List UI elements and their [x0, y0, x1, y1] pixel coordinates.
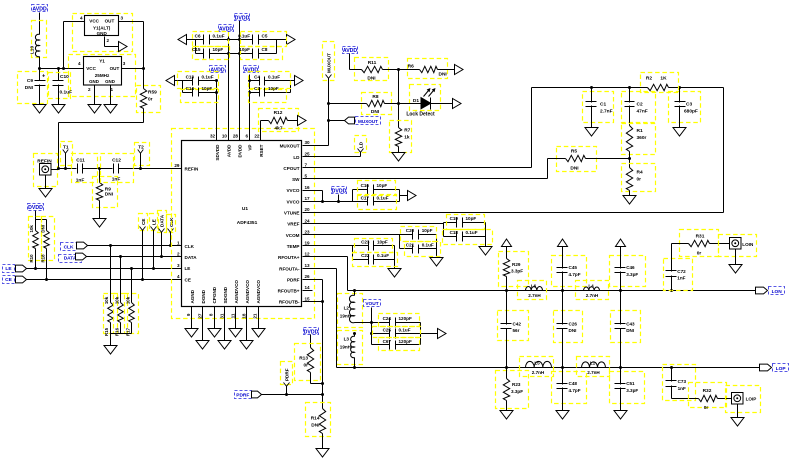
wire decap joint CD right	[290, 81, 292, 93]
ground Y1 pin1	[104, 105, 117, 114]
output flag LOP	[760, 364, 789, 372]
svg-text:3.3pF: 3.3pF	[511, 269, 523, 274]
svg-text:10pF: 10pF	[377, 239, 388, 244]
resistor R4 0r	[622, 164, 656, 196]
svg-text:4.7pF: 4.7pF	[569, 388, 581, 393]
resistor R11 DNI	[350, 58, 399, 82]
svg-text:23: 23	[305, 229, 311, 234]
svg-text:26: 26	[305, 274, 311, 279]
svg-text:DNI: DNI	[570, 166, 579, 172]
inductor L10	[30, 21, 47, 58]
wire MUXOUT pin30	[303, 145, 329, 147]
svg-text:L10: L10	[30, 46, 36, 55]
svg-text:L1: L1	[590, 360, 596, 365]
svg-text:AGNDVCO: AGNDVCO	[256, 280, 261, 304]
capacitor C3 680pF	[669, 88, 701, 128]
svg-text:3.3pF: 3.3pF	[626, 388, 638, 393]
svg-text:VREF: VREF	[287, 222, 299, 227]
svg-text:4: 4	[177, 274, 180, 279]
wire Y1ALT VCC drop	[64, 22, 85, 69]
wire DVDD pin28	[239, 21, 241, 141]
resistor R8 DNI	[329, 93, 399, 115]
svg-text:6: 6	[245, 134, 248, 139]
svg-text:C25: C25	[383, 328, 392, 333]
ground C1	[585, 128, 598, 137]
wire U1 ground pin AGNDVCO	[246, 307, 248, 341]
svg-text:10pF: 10pF	[268, 86, 279, 91]
svg-text:SDGND: SDGND	[223, 286, 228, 303]
svg-text:D1: D1	[413, 98, 419, 104]
wire C22 row	[353, 259, 395, 261]
svg-text:C18: C18	[450, 230, 459, 235]
wire C18 row	[444, 236, 486, 238]
wire U1 ground pin SDGND	[224, 307, 226, 341]
ground branch2	[556, 411, 569, 420]
arrow R6 out	[455, 65, 464, 75]
wire C24/C67 joint right	[421, 323, 438, 345]
wire CPOUT pin7	[303, 88, 532, 168]
svg-text:RFOUTB-: RFOUTB-	[279, 300, 300, 305]
ground U1 pin SDGND	[218, 341, 231, 350]
ground LOIN	[729, 249, 742, 274]
wire VP pin6	[249, 75, 251, 141]
wire L2 to C24	[355, 322, 372, 324]
wire C19/C18 joints	[444, 223, 486, 247]
svg-text:R32: R32	[703, 388, 712, 394]
svg-text:AGNDVCO: AGNDVCO	[234, 280, 239, 304]
svg-text:0.1uF: 0.1uF	[213, 33, 225, 38]
svg-text:C10: C10	[60, 74, 69, 80]
input flag DATA	[59, 253, 183, 262]
svg-text:2: 2	[88, 87, 91, 92]
svg-text:C72: C72	[677, 269, 686, 274]
capacitor C1 2.7nF	[583, 88, 614, 128]
net label LD vertical	[355, 136, 367, 157]
input flag LE	[3, 265, 183, 273]
node junction C2	[628, 86, 631, 89]
net label PDRF vertical	[281, 362, 293, 397]
svg-text:AVDD: AVDD	[343, 48, 358, 54]
node junction D1	[397, 102, 400, 105]
diode D1 LED Lock Detect	[399, 85, 453, 118]
svg-text:Y1: Y1	[99, 58, 105, 63]
capacitor C73 1nF	[663, 365, 699, 401]
output flag MUXOUT	[329, 117, 381, 125]
svg-text:R1: R1	[637, 128, 643, 134]
svg-text:R29: R29	[512, 262, 521, 267]
svg-text:C15: C15	[192, 47, 201, 52]
svg-text:C45: C45	[569, 265, 578, 270]
capacitor C22 0.1uF	[353, 253, 398, 267]
inductor L2 19nH	[338, 291, 363, 328]
resistor R5 DNI	[548, 147, 630, 172]
capacitor C13 0.1uF	[178, 72, 219, 89]
resistor R9 DNI	[93, 169, 118, 219]
node junction R9	[98, 167, 101, 170]
svg-text:0r: 0r	[697, 250, 702, 256]
wire SW pin5	[303, 159, 548, 179]
svg-text:C5: C5	[262, 33, 268, 38]
output flag LON	[756, 287, 785, 295]
svg-text:0.1uF: 0.1uF	[268, 75, 280, 80]
svg-text:20: 20	[305, 207, 311, 212]
svg-text:1K: 1K	[660, 76, 667, 82]
capacitor C15 10pF	[192, 47, 229, 60]
node junction branch2 rail1	[561, 289, 564, 292]
svg-text:L4: L4	[588, 283, 594, 288]
power label DVDD top	[235, 14, 250, 22]
ground U1 pin AGNDVCO	[240, 341, 253, 350]
testpoint T2	[135, 143, 150, 171]
ground C3	[673, 128, 686, 137]
svg-text:R4: R4	[637, 170, 643, 176]
svg-text:RSET: RSET	[259, 144, 264, 156]
node junction R59 return	[57, 167, 60, 170]
svg-text:DATA: DATA	[64, 256, 77, 262]
node junction L3 rail2	[353, 366, 356, 369]
svg-text:C13: C13	[186, 75, 195, 80]
node junction R10 LE	[34, 267, 37, 270]
capacitor C17 0.1uF	[358, 195, 397, 210]
wire C23/C22 joints	[353, 246, 395, 269]
svg-text:R14: R14	[311, 416, 320, 422]
svg-text:25: 25	[305, 151, 311, 156]
capacitor C12 1nF	[101, 154, 134, 183]
svg-text:C51: C51	[626, 381, 635, 386]
wire U1 ground pin DGND	[202, 307, 204, 341]
svg-text:L5: L5	[534, 360, 540, 365]
resistor R23 3.3pF	[496, 368, 529, 411]
svg-text:27: 27	[197, 313, 202, 319]
svg-text:C7: C7	[254, 86, 260, 91]
svg-text:0.1uF: 0.1uF	[238, 33, 250, 38]
svg-text:R10: R10	[29, 254, 34, 263]
wire C25 row	[372, 333, 421, 335]
svg-text:DNI: DNI	[105, 191, 114, 197]
wire C67 row	[372, 344, 421, 346]
inductor L4 2.7nH	[576, 281, 609, 300]
ground branch1	[500, 411, 513, 420]
svg-text:0.1uF: 0.1uF	[377, 253, 389, 258]
wire Y1 pin3 out	[122, 67, 146, 70]
node junction branch1 rail2	[505, 366, 508, 369]
ground R14	[316, 449, 329, 458]
svg-text:10: 10	[222, 134, 228, 139]
wire REFIN row	[59, 168, 183, 170]
svg-text:C17: C17	[361, 196, 370, 201]
svg-text:R23: R23	[512, 382, 521, 387]
wire VCOM pin23	[303, 234, 400, 236]
svg-text:DVDD: DVDD	[28, 205, 43, 211]
svg-text:14: 14	[305, 285, 311, 290]
wire U1 ground pin AGNDVCO	[258, 307, 260, 329]
node junction Y1ALT drop	[62, 67, 65, 70]
svg-text:DATA: DATA	[185, 255, 198, 260]
svg-text:R6: R6	[408, 64, 414, 70]
svg-text:C4: C4	[254, 75, 260, 80]
wire RFOUTB- pin15	[303, 300, 325, 303]
wire R59 return to REFIN node	[59, 109, 144, 169]
svg-text:4: 4	[80, 16, 83, 21]
svg-text:GND: GND	[105, 79, 115, 84]
arrow up branch3	[616, 239, 626, 247]
svg-text:SDVDD: SDVDD	[215, 144, 220, 161]
wire RFOUTA+ pin12	[303, 257, 348, 291]
svg-text:2: 2	[177, 252, 180, 257]
svg-text:0.1uF: 0.1uF	[466, 230, 478, 235]
svg-text:47nF: 47nF	[637, 108, 648, 114]
wire decap row C left	[175, 79, 219, 82]
svg-text:R8: R8	[372, 94, 378, 100]
svg-text:13: 13	[305, 263, 311, 268]
wire decap row B	[196, 52, 277, 55]
svg-text:8: 8	[209, 313, 214, 316]
node junction R1/R4/R5	[628, 157, 631, 160]
wire C23 row	[353, 245, 395, 247]
svg-text:DNI: DNI	[367, 76, 376, 82]
capacitor C8 10pF	[239, 47, 282, 60]
svg-text:10k: 10k	[114, 296, 119, 304]
capacitor C10 0.1uF	[49, 73, 73, 105]
inductor L6 2.7nH	[518, 281, 547, 300]
resistor R7 1k	[390, 121, 412, 153]
svg-text:LD: LD	[358, 141, 363, 148]
svg-text:10pF: 10pF	[466, 216, 477, 221]
power label DVDD r13	[304, 328, 319, 348]
svg-text:R11: R11	[368, 60, 377, 66]
svg-text:PDRF: PDRF	[236, 392, 249, 398]
svg-text:680pF: 680pF	[684, 108, 698, 114]
wire pullup tops	[36, 220, 47, 231]
resistor R15 10k	[104, 244, 118, 336]
wire VTUNE pin20	[303, 212, 724, 214]
svg-text:AVDD: AVDD	[32, 7, 47, 13]
net label MUXOUT vertical	[323, 42, 335, 146]
wire pulldown commons	[111, 323, 132, 346]
capacitor C6 0.1uF	[193, 32, 229, 47]
wire RF rail 2	[337, 367, 762, 369]
svg-text:1nF: 1nF	[112, 177, 121, 183]
svg-text:0.1uF: 0.1uF	[377, 196, 389, 201]
wire PDRF pin26	[303, 280, 323, 409]
svg-text:C20: C20	[406, 228, 415, 233]
svg-text:7: 7	[305, 163, 308, 168]
svg-text:3.3pF: 3.3pF	[626, 272, 638, 277]
resistor R18 DNI	[41, 217, 55, 280]
capacitor C42 56r	[498, 291, 529, 368]
svg-text:21: 21	[253, 313, 258, 319]
svg-text:DATA: DATA	[160, 214, 165, 227]
inductor L5 2.7nH	[520, 357, 554, 377]
wire RFOUTB+ pin14 stub	[303, 290, 313, 292]
wire loop filter top	[532, 87, 724, 89]
inductor L1 2.7nH	[577, 357, 610, 377]
svg-text:15: 15	[305, 296, 311, 301]
svg-text:19nH: 19nH	[340, 345, 352, 350]
svg-text:11: 11	[230, 313, 235, 318]
svg-text:CE: CE	[141, 219, 146, 225]
wire C17 row	[353, 201, 400, 203]
resistor R10 10k	[29, 217, 42, 269]
ground LOIP	[731, 404, 744, 427]
svg-text:3: 3	[177, 263, 180, 268]
capacitor C14 10pF	[181, 86, 219, 103]
ground U1 pin AGNDVCO	[229, 329, 242, 338]
power label AVDD top	[219, 25, 234, 33]
svg-text:MUXOUT: MUXOUT	[327, 53, 332, 73]
capacitor C67 120pF	[379, 338, 420, 351]
svg-text:OUT: OUT	[105, 19, 115, 24]
net label CE vertical	[139, 214, 148, 282]
wire U1 ground pin AGNDVCO	[235, 307, 237, 329]
svg-text:10k: 10k	[29, 225, 34, 233]
wire VVCO pin17	[303, 201, 353, 203]
resistor R17 10k	[125, 267, 139, 336]
svg-text:VCC: VCC	[86, 66, 96, 71]
svg-text:C12: C12	[112, 157, 121, 163]
svg-text:30: 30	[305, 140, 311, 145]
svg-text:TEMP: TEMP	[287, 244, 300, 249]
svg-text:120pF: 120pF	[399, 339, 412, 344]
ground C23/C22	[388, 269, 401, 278]
svg-text:24: 24	[305, 218, 311, 223]
capacitor C23 10pF	[355, 239, 393, 253]
svg-text:2.7nH: 2.7nH	[532, 370, 545, 375]
svg-text:1k: 1k	[404, 135, 410, 141]
svg-text:AGNDVCO: AGNDVCO	[245, 280, 250, 304]
node junction C1	[590, 86, 593, 89]
power label AVDD row C left	[210, 66, 226, 74]
wire RF rail 1	[348, 290, 756, 292]
testpoint T1	[61, 142, 73, 171]
svg-text:R59: R59	[148, 90, 157, 96]
svg-text:L2: L2	[344, 306, 350, 311]
svg-text:1nF: 1nF	[678, 386, 686, 391]
node junction branch1 rail1	[505, 289, 508, 292]
capacitor C5 0.1uF	[238, 32, 287, 47]
svg-text:29: 29	[174, 163, 180, 168]
resistor R32 0r	[689, 383, 732, 412]
svg-text:LE: LE	[185, 266, 191, 271]
svg-text:DVDD: DVDD	[304, 330, 319, 336]
crystal oscillator Y1 25MHz	[69, 55, 136, 97]
connector REFIN SMA	[34, 154, 59, 187]
ground pulldowns	[104, 346, 117, 355]
svg-text:C6: C6	[195, 33, 201, 38]
svg-text:16: 16	[305, 185, 311, 190]
svg-text:RFOUTA-: RFOUTA-	[279, 266, 300, 271]
wire SDVDD pin32	[216, 81, 218, 141]
node junction L2 tap	[353, 289, 356, 292]
node junction C3	[678, 86, 681, 89]
wire L10 to node	[39, 57, 41, 81]
resistor R14 DNI	[306, 403, 331, 449]
svg-text:DVDD: DVDD	[235, 16, 250, 22]
svg-text:LOIP: LOIP	[746, 396, 757, 401]
svg-text:32: 32	[210, 134, 216, 139]
node junction R13	[321, 382, 324, 385]
svg-text:DNI: DNI	[311, 423, 320, 429]
wire TEMP pin19	[303, 245, 353, 247]
wire C24 row	[372, 322, 421, 324]
svg-text:C22: C22	[361, 253, 370, 258]
net label CLK vertical	[167, 215, 176, 248]
svg-text:18: 18	[242, 313, 247, 319]
svg-text:LON: LON	[772, 289, 783, 295]
svg-text:DNI: DNI	[371, 109, 380, 115]
arrow C16/C17	[408, 191, 417, 201]
svg-text:0r: 0r	[303, 363, 308, 369]
svg-text:VVCO: VVCO	[286, 188, 299, 193]
svg-text:0r: 0r	[704, 405, 709, 411]
resistor R12 4k7	[259, 109, 299, 132]
wire decap row D left	[183, 91, 219, 94]
capacitor C24 120pF	[379, 314, 420, 328]
svg-text:C67: C67	[383, 339, 392, 344]
capacitor C19 10pF	[447, 215, 485, 230]
wire C21 row	[400, 248, 437, 250]
resistor R29 3.3pF	[499, 247, 529, 291]
svg-text:R13: R13	[299, 356, 308, 362]
svg-text:10k: 10k	[125, 296, 130, 304]
svg-text:U1: U1	[242, 206, 248, 212]
svg-text:DNI: DNI	[41, 225, 46, 233]
ground U1 pin DGND	[196, 341, 209, 350]
svg-text:22: 22	[254, 134, 260, 139]
arrow R12	[298, 116, 307, 126]
wire LD pin25	[303, 156, 361, 158]
svg-text:360r: 360r	[637, 135, 647, 141]
svg-text:C1: C1	[600, 101, 606, 107]
ground C18/C19	[479, 247, 492, 256]
capacitor C4 0.1uF	[249, 72, 291, 89]
svg-text:C26: C26	[569, 322, 578, 327]
svg-text:C48: C48	[569, 381, 578, 386]
ground U1 pin AGND	[185, 329, 198, 338]
svg-text:R16: R16	[114, 327, 119, 336]
svg-text:0r: 0r	[637, 177, 642, 183]
svg-text:R7: R7	[404, 128, 410, 134]
wire decap joint CD left	[182, 81, 184, 93]
svg-text:10pF: 10pF	[422, 228, 433, 233]
svg-text:R2: R2	[646, 76, 652, 82]
resistor R16 10k	[114, 255, 128, 336]
arrow left row A	[178, 35, 187, 45]
svg-text:25MHz: 25MHz	[95, 73, 110, 78]
wire Y1ALT pin2	[105, 37, 119, 47]
capacitor C20 10pF	[401, 227, 437, 242]
svg-text:2.7nH: 2.7nH	[528, 293, 541, 298]
wire AVDD pin10	[228, 32, 230, 141]
svg-text:12: 12	[305, 252, 311, 257]
wire RSET pin22	[260, 121, 262, 141]
svg-text:GND: GND	[89, 79, 99, 84]
svg-text:2.7nH: 2.7nH	[586, 293, 599, 298]
wire loop filter to VTUNE	[723, 88, 725, 213]
svg-text:C14: C14	[186, 86, 195, 91]
power label AVDD	[32, 5, 48, 35]
svg-text:VP: VP	[248, 145, 253, 151]
wire U1 ground pin AGND	[191, 307, 193, 329]
svg-text:C8: C8	[262, 47, 268, 52]
svg-text:2.7nH: 2.7nH	[587, 370, 600, 375]
svg-text:4.7pF: 4.7pF	[569, 272, 581, 277]
wire C19 row	[444, 222, 486, 224]
svg-text:1nF: 1nF	[76, 177, 85, 183]
ground R9	[93, 219, 106, 228]
svg-text:C3: C3	[686, 101, 692, 107]
svg-text:CE: CE	[185, 278, 191, 283]
